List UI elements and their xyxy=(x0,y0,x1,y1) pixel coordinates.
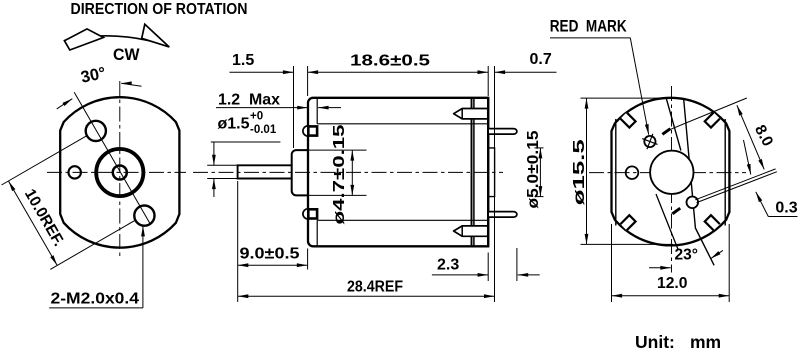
mounting hole upper-left M2 xyxy=(86,121,106,141)
brush tag top xyxy=(454,109,488,119)
30 deg arc arrow at diagonal xyxy=(57,99,73,109)
RED MARK leader with arrow xyxy=(630,38,648,135)
svg-text:2-M2.0x0.4: 2-M2.0x0.4 xyxy=(51,291,140,308)
dim 15.5 line with arrows xyxy=(586,98,588,244)
svg-text:Unit:: Unit: xyxy=(635,332,675,352)
shaft outline xyxy=(238,165,292,178)
front view vertical centerline xyxy=(119,81,121,260)
front view motor outline xyxy=(60,97,179,247)
0.3 double line xyxy=(695,169,777,203)
dim 28.4REF line xyxy=(238,295,495,297)
can crimp line bottom xyxy=(317,219,488,221)
boss edge extension line top xyxy=(309,149,367,151)
svg-text:0.3: 0.3 xyxy=(775,200,797,217)
dim 4.7 line with arrows xyxy=(351,150,353,195)
CW arrowhead triangle xyxy=(142,24,169,47)
svg-text:28.4REF: 28.4REF xyxy=(347,279,403,296)
2-M2.0x0.4 leader underline xyxy=(49,307,143,309)
front view shaft circle xyxy=(113,166,127,180)
red mark circle with cross xyxy=(639,131,660,152)
vent slot bottom-left xyxy=(620,215,635,230)
front view bearing boss circle xyxy=(96,149,143,196)
shaft dia leader line xyxy=(211,141,281,143)
CW arrow tail flag xyxy=(64,29,103,50)
svg-text:-0.01: -0.01 xyxy=(250,124,277,136)
brush tag bottom xyxy=(454,226,488,236)
RED MARK leader underline xyxy=(550,37,630,39)
dim 18.6 line xyxy=(308,71,488,73)
brush bar edge line B xyxy=(684,99,714,265)
svg-text:ø1.5: ø1.5 xyxy=(218,116,250,133)
dim 12.0 line xyxy=(612,295,730,297)
30 deg arc arrow at centerline xyxy=(121,83,141,86)
0.3 leader underline xyxy=(768,216,797,218)
rear small hole lower-right xyxy=(687,197,699,209)
vent slot top-left xyxy=(620,112,635,127)
10.0REF dimension line xyxy=(9,181,58,265)
23 deg ray xyxy=(656,194,678,249)
mounting hole lower-right M2 xyxy=(134,206,154,226)
svg-text:+0: +0 xyxy=(250,111,263,123)
dim 2.3 leader xyxy=(432,274,488,276)
terminal pin top xyxy=(489,129,517,135)
shaft dia lower arrow xyxy=(213,179,215,197)
dim 12.0 extension line right xyxy=(728,224,730,302)
dim 0.7 leader with arrow xyxy=(495,71,557,73)
mark dash lower xyxy=(672,208,680,214)
dim 5.0 line with arrows xyxy=(539,148,541,197)
rear bearing boss xyxy=(488,148,494,197)
2-M2.0x0.4 leader vertical with arrow to hole xyxy=(142,226,144,308)
dim 15.5 extension line top xyxy=(581,97,674,99)
23 deg arrow at ray xyxy=(711,250,723,258)
svg-text:9.0±0.5: 9.0±0.5 xyxy=(240,246,300,263)
extension line boss front xyxy=(293,66,295,148)
svg-text:23°: 23° xyxy=(675,247,698,264)
extension line cap rear top xyxy=(487,66,489,96)
brush bar edge line A xyxy=(666,98,681,151)
rear small hole left xyxy=(626,166,639,179)
10.0REF extension line lower xyxy=(50,220,135,269)
extension line cap rear bottom xyxy=(487,253,489,282)
extension line body front bottom xyxy=(307,249,309,270)
svg-text:ø5.0±0.15: ø5.0±0.15 xyxy=(525,130,542,208)
side view centerline xyxy=(193,171,503,173)
svg-text:ø4.7±0.15: ø4.7±0.15 xyxy=(331,124,348,225)
housing step line top xyxy=(316,99,318,124)
rear view vertical centerline xyxy=(671,86,673,273)
dim 1.2 Max leader xyxy=(216,107,308,109)
svg-text:18.6±0.5: 18.6±0.5 xyxy=(350,53,430,70)
small pilot hole left xyxy=(69,166,81,178)
dim 2.3 right arrow xyxy=(518,274,540,276)
svg-text:12.0: 12.0 xyxy=(657,275,688,292)
eyelet bottom xyxy=(303,209,313,219)
front bearing boss side view xyxy=(292,150,308,195)
extension line body front xyxy=(307,66,309,96)
10.0REF extension line upper xyxy=(2,136,87,185)
boss edge extension line bottom xyxy=(309,194,367,196)
front view horizontal centerline xyxy=(47,171,186,173)
rear center hole xyxy=(650,151,693,194)
30 deg diagonal hole axis line xyxy=(74,92,150,224)
rear view motor outline xyxy=(612,98,730,246)
dim 9.0 line xyxy=(238,264,307,266)
dim 8.0 line with arrows xyxy=(737,105,764,169)
svg-text:DIRECTION OF ROTATION: DIRECTION OF ROTATION xyxy=(71,1,248,18)
23 deg arrow at centerline xyxy=(649,267,671,269)
vent slot top-right xyxy=(705,112,720,127)
cap rear face edge xyxy=(487,98,489,247)
rear view horizontal centerline xyxy=(589,172,746,174)
svg-text:0.7: 0.7 xyxy=(530,51,552,68)
dim 1.2 Max opposing arrow xyxy=(318,107,341,109)
can crimp line top xyxy=(317,123,488,125)
vent slot bottom-right xyxy=(705,215,720,230)
dim 15.5 extension line bottom xyxy=(581,243,674,245)
terminal pin bottom xyxy=(489,212,517,218)
shaft dia upper arrow xyxy=(213,142,215,165)
dim 12.0 extension line left xyxy=(611,224,613,302)
can-cap interface line xyxy=(471,98,473,247)
svg-text:1.5: 1.5 xyxy=(232,52,254,69)
svg-text:1.2 Max: 1.2 Max xyxy=(218,92,280,109)
housing step line bottom xyxy=(316,220,318,246)
red mark dash upper xyxy=(662,129,670,135)
dim 5.0 extension stubs xyxy=(535,147,544,149)
extension line rear boss face full height xyxy=(494,66,496,302)
motor body outline side view xyxy=(308,98,488,247)
svg-text:2.3: 2.3 xyxy=(437,257,459,274)
CW rotation arrow arc xyxy=(64,36,169,47)
svg-text:CW: CW xyxy=(113,45,140,64)
rear view inner flat line left xyxy=(615,119,617,226)
dim 1.5 leader with arrow xyxy=(230,71,294,73)
svg-text:ø15.5: ø15.5 xyxy=(571,139,588,206)
8.0 extension line upper xyxy=(665,98,747,132)
svg-text:RED MARK: RED MARK xyxy=(550,18,627,36)
eyelet top xyxy=(303,126,313,136)
0.3 opposing arrow from above xyxy=(744,140,751,175)
pin end extension line xyxy=(516,248,518,281)
shaft diameter thin extension lines xyxy=(207,164,237,166)
extension line shaft tip xyxy=(237,181,239,302)
svg-text:mm: mm xyxy=(690,332,721,352)
rear view inner flat line right xyxy=(724,119,726,226)
cap lip line xyxy=(473,98,475,247)
0.3 leader with arrow xyxy=(756,192,769,217)
